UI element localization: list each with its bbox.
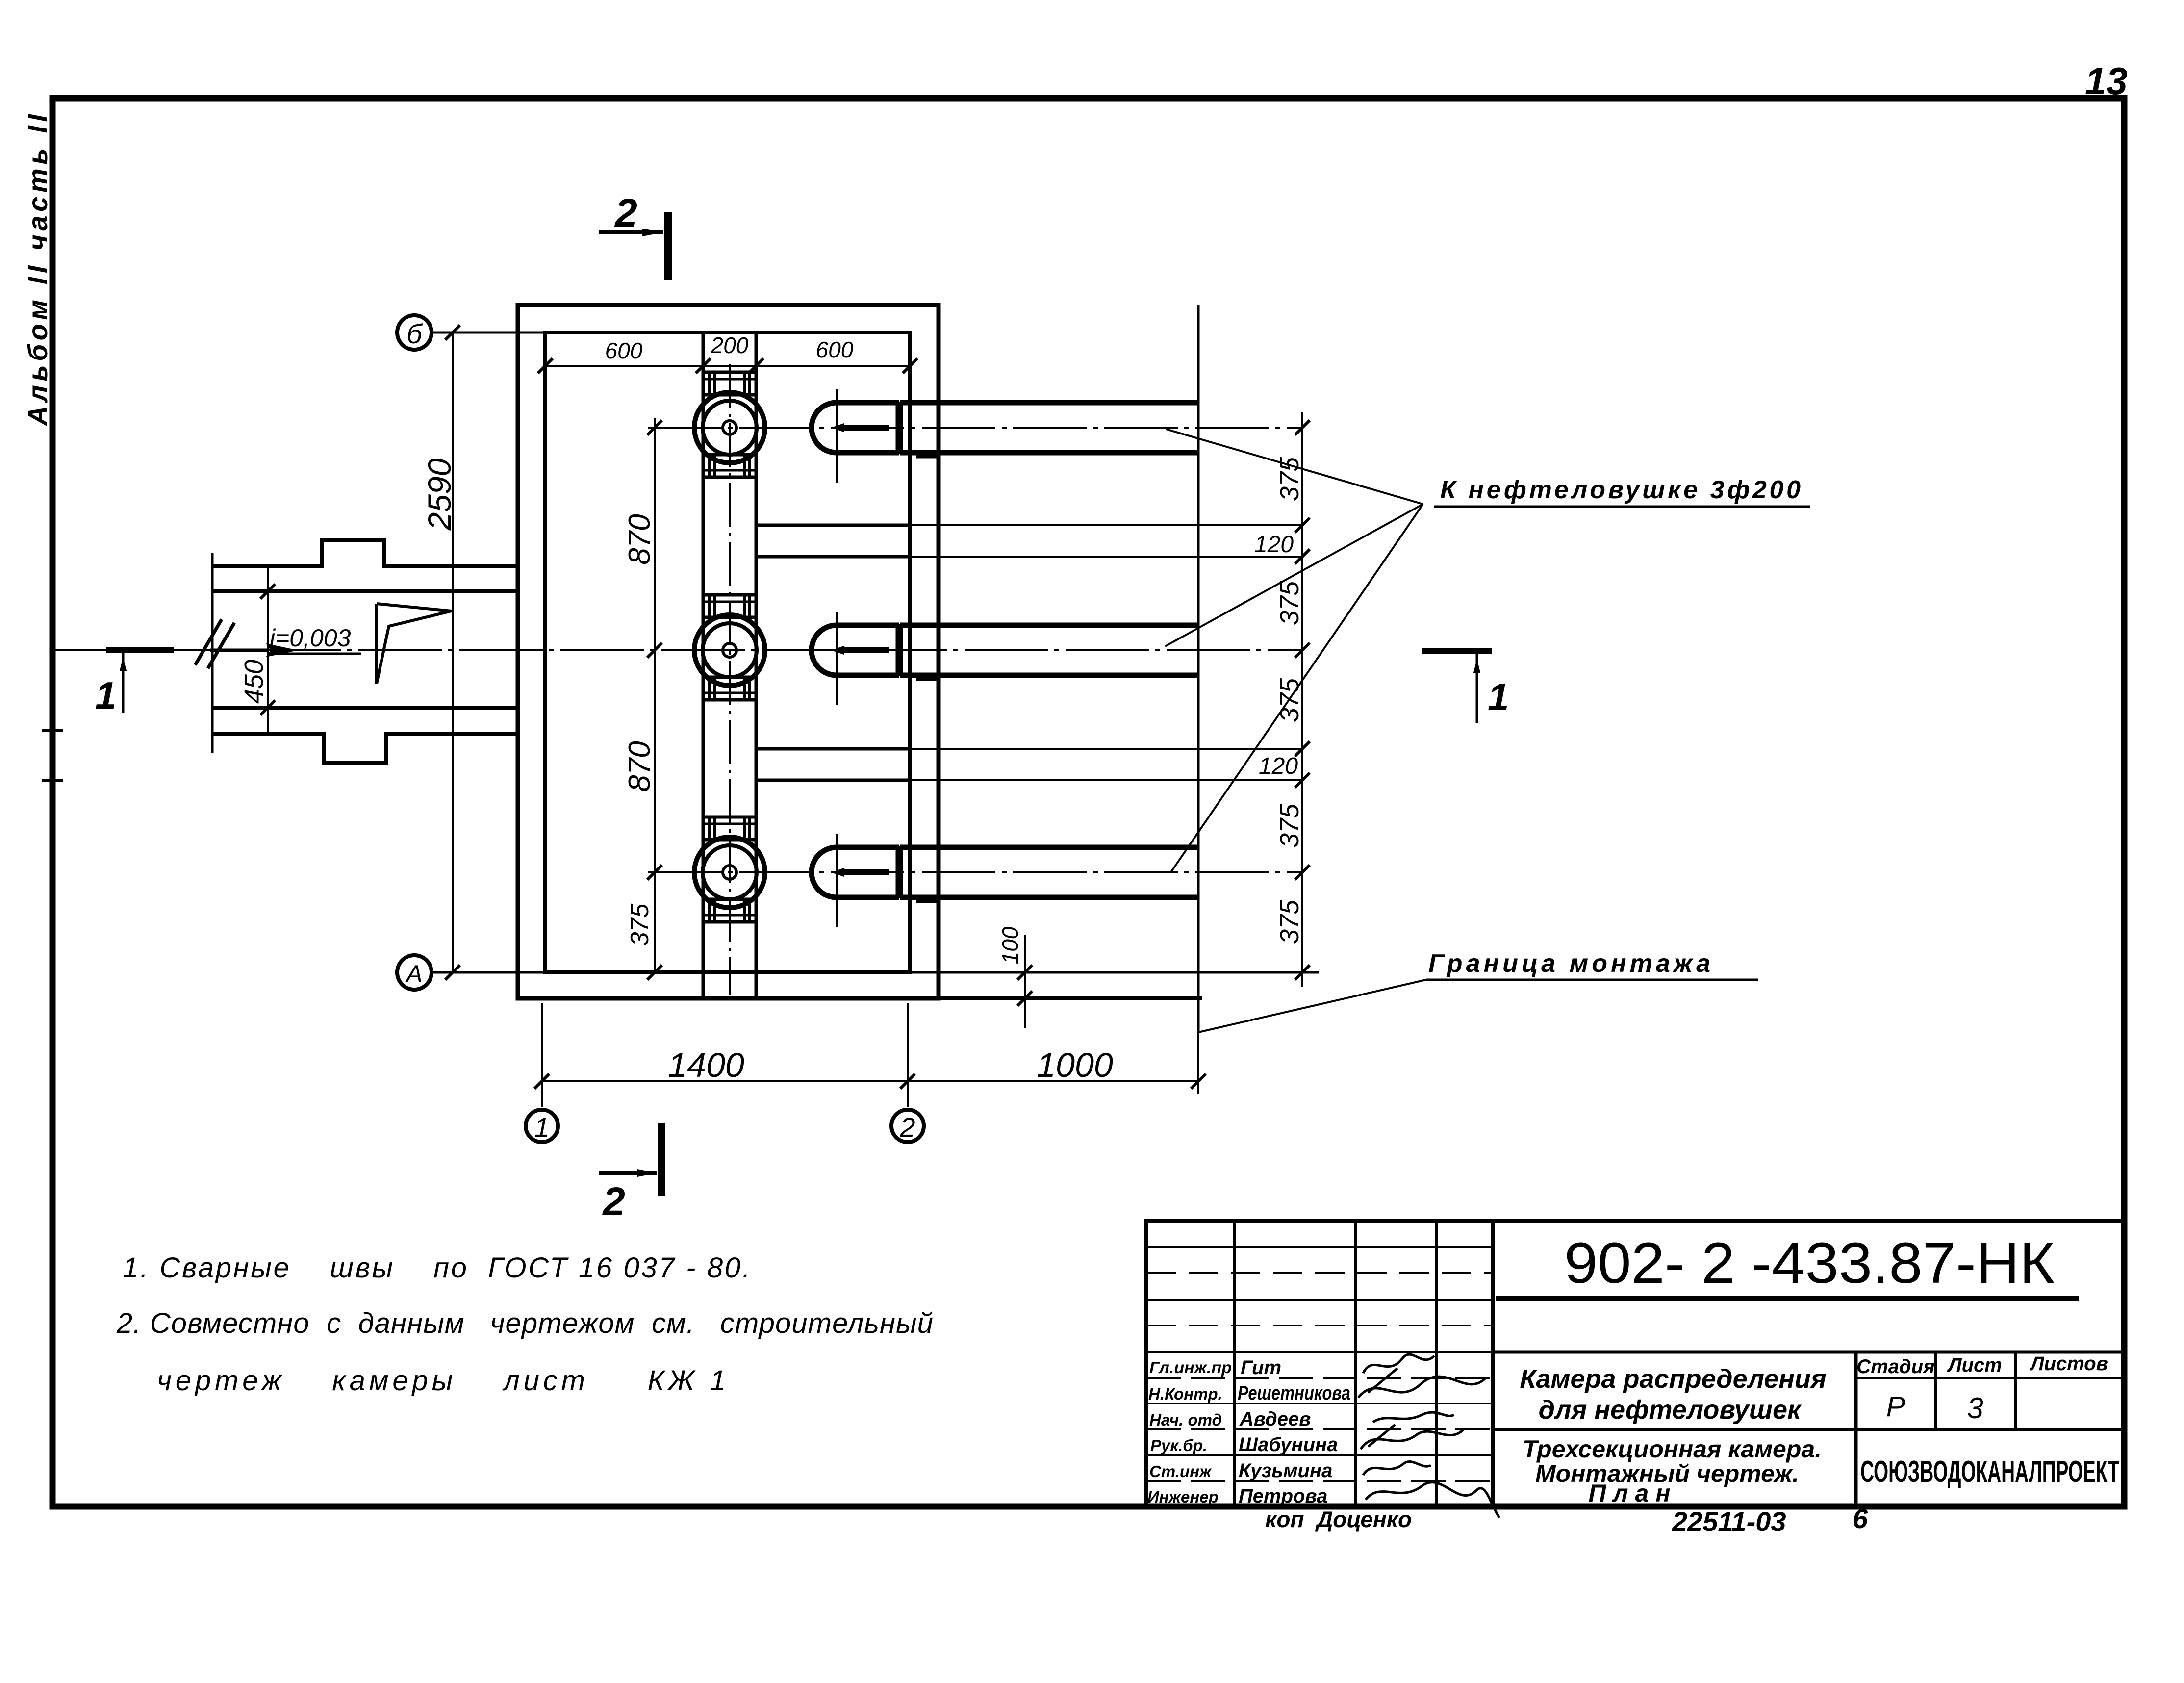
title block: staff table upper thin rows — [1146, 1246, 1493, 1248]
svg-text:2: 2 — [899, 1112, 915, 1143]
signatures — [1358, 1354, 1499, 1518]
svg-text:1400: 1400 — [668, 1046, 744, 1084]
svg-text:13: 13 — [2085, 59, 2128, 102]
leader to boundary line — [1198, 980, 1426, 1032]
svg-text:Гл.инж.пр: Гл.инж.пр — [1149, 1358, 1232, 1377]
title block: stage/sheet columns — [1854, 1352, 1858, 1506]
staff role labels — [1147, 1358, 1232, 1506]
pipe break mark — [195, 619, 234, 668]
svg-text:1: 1 — [1488, 675, 1509, 718]
partition wall 1 top face — [756, 524, 912, 527]
axis bubble Б — [397, 315, 432, 350]
pipe socket and pipe, section 1 — [812, 389, 1198, 483]
svg-text:450: 450 — [239, 660, 269, 704]
svg-text:2590: 2590 — [421, 458, 457, 531]
svg-text:Листов: Листов — [2029, 1353, 2108, 1375]
leader to pipe 1 — [1166, 429, 1423, 504]
svg-text:375: 375 — [1275, 457, 1304, 501]
section mark 2 top — [599, 191, 668, 280]
bottom dimension line 1400/1000 — [534, 1003, 1206, 1107]
valve channel right wall — [755, 332, 758, 998]
svg-text:чертеж камеры лист К: чертеж камеры лист КЖ 1 — [157, 1365, 726, 1397]
svg-text:600: 600 — [816, 337, 854, 362]
title block: document number cell underline — [1496, 1296, 2079, 1301]
svg-text:1. Сварные швы по ГОСТ: 1. Сварные швы по ГОСТ 16 037 - 80. — [123, 1252, 750, 1284]
chamber inner wall — [545, 332, 910, 972]
axis bubble А — [397, 955, 432, 990]
svg-text:1000: 1000 — [1037, 1046, 1113, 1084]
dimension 450 — [239, 565, 275, 736]
partition wall 2 top face — [756, 747, 912, 751]
inlet channel outer top wall — [212, 540, 518, 566]
svg-text:Ст.инж: Ст.инж — [1149, 1462, 1212, 1480]
svg-text:Лист: Лист — [1947, 1354, 2002, 1376]
leader to pipe 3 — [1171, 504, 1423, 871]
section mark 2 bottom — [599, 1123, 661, 1224]
title block: staff name row lines — [1146, 1377, 1493, 1379]
svg-text:К нефтеловушке 3ф200: К нефтеловушке 3ф200 — [1440, 476, 1801, 504]
svg-text:Альбом II часть II: Альбом II часть II — [22, 114, 53, 427]
partition wall 2 bottom face — [756, 779, 912, 782]
dimension 2590 vertical — [421, 325, 460, 980]
svg-text:870: 870 — [623, 514, 657, 564]
dimension chain 870/870/375 — [623, 418, 662, 980]
label: Граница монтажа — [1426, 949, 1758, 980]
label: К нефтеловушке 3ф200 — [1434, 476, 1810, 507]
inlet channel inner bottom wall — [212, 706, 518, 710]
svg-text:Граница монтажа: Граница монтажа — [1428, 949, 1710, 978]
svg-text:Р: Р — [1886, 1391, 1905, 1423]
svg-text:Рук.бр.: Рук.бр. — [1150, 1436, 1207, 1454]
title block: staff table verticals — [1233, 1221, 1236, 1506]
svg-text:Решетникова: Решетникова — [1238, 1382, 1350, 1404]
valve channel left wall — [702, 332, 705, 998]
partition 2 extension lines to dim chain — [912, 748, 1302, 750]
section mark 1 right — [1422, 651, 1509, 723]
svg-text:3: 3 — [1967, 1392, 1983, 1425]
axis line А — [431, 971, 1319, 974]
inlet channel left end line — [211, 553, 214, 753]
axis line section 3 — [648, 871, 1302, 873]
svg-text:А: А — [405, 960, 422, 988]
column bubble 1 — [526, 1110, 558, 1143]
svg-text:375: 375 — [1275, 899, 1304, 944]
project title: Камера распределения для нефтеловушек — [1520, 1364, 1826, 1425]
valve channel centerline — [729, 364, 731, 995]
svg-text:Трехсекционная камера.: Трехсекционная камера. — [1523, 1435, 1822, 1463]
svg-text:Авдеев: Авдеев — [1239, 1408, 1311, 1430]
leader to pipe 2 — [1165, 504, 1423, 646]
svg-text:1: 1 — [95, 674, 116, 717]
svg-text:Стадия: Стадия — [1856, 1356, 1934, 1377]
chamber outer wall — [518, 305, 939, 998]
slope direction flag — [377, 604, 452, 684]
svg-text:для нефтеловушек: для нефтеловушек — [1539, 1395, 1802, 1425]
pipe socket and pipe, section 3 — [812, 834, 1198, 927]
svg-text:Кузьмина: Кузьмина — [1239, 1460, 1332, 1481]
svg-text:План: План — [1588, 1479, 1677, 1507]
svg-text:Гит: Гит — [1241, 1357, 1281, 1378]
svg-text:120: 120 — [1254, 532, 1294, 558]
top dimension line 600/200/600 — [538, 332, 917, 373]
svg-text:375: 375 — [626, 903, 654, 946]
chamber bottom slab edge extension to boundary — [939, 996, 1202, 1000]
gate valve 3 — [694, 817, 765, 922]
svg-text:22511-03: 22511-03 — [1672, 1506, 1786, 1537]
svg-text:375: 375 — [1275, 803, 1304, 848]
inlet channel outer bottom wall — [212, 734, 518, 763]
svg-text:Инженер: Инженер — [1147, 1488, 1219, 1506]
title block outline — [1146, 1221, 2124, 1506]
svg-text:СОЮЗВОДОКАНАЛПРОЕКТ: СОЮЗВОДОКАНАЛПРОЕКТ — [1860, 1455, 2119, 1489]
gate valve 2 — [694, 595, 765, 700]
svg-text:6: 6 — [1853, 1503, 1868, 1534]
svg-text:i=0,003: i=0,003 — [270, 624, 351, 652]
svg-text:2: 2 — [602, 1179, 625, 1224]
svg-text:коп Доценко: коп Доценко — [1265, 1506, 1412, 1532]
sheet title: Трехсекционная камера. Монтажный чертеж. План — [1523, 1435, 1822, 1507]
svg-text:б: б — [406, 318, 423, 349]
svg-text:Шабунина: Шабунина — [1239, 1434, 1338, 1455]
section mark 1 left — [95, 650, 174, 717]
svg-text:120: 120 — [1259, 753, 1298, 779]
notes text — [116, 1252, 933, 1397]
column bubble 2 — [891, 1110, 924, 1143]
gate valve 1 — [694, 372, 765, 477]
partition wall 1 bottom face — [756, 555, 912, 559]
svg-text:Нач. отд: Нач. отд — [1149, 1411, 1222, 1429]
svg-text:1: 1 — [534, 1112, 549, 1143]
axis line section 1 — [648, 427, 1302, 429]
svg-text:Петрова: Петрова — [1239, 1485, 1327, 1507]
svg-text:2. Совместно с данным черт: 2. Совместно с данным чертежом см. строи… — [116, 1307, 933, 1339]
svg-text:Н.Контр.: Н.Контр. — [1148, 1385, 1222, 1403]
svg-text:100: 100 — [997, 926, 1023, 964]
svg-text:870: 870 — [623, 741, 657, 791]
pipe socket and pipe, section 2 — [812, 612, 1198, 705]
flow arrow on inlet axis — [210, 643, 298, 657]
axis line section 2 / inlet centerline — [55, 649, 1302, 651]
svg-text:902- 2 -433.87-НК: 902- 2 -433.87-НК — [1564, 1231, 2055, 1296]
staff names — [1238, 1357, 1350, 1507]
stage/sheet headers — [1856, 1353, 2108, 1377]
svg-text:375: 375 — [1275, 581, 1304, 625]
inlet channel inner top wall — [212, 589, 518, 593]
svg-text:Камера распределения: Камера распределения — [1520, 1364, 1826, 1394]
svg-text:2: 2 — [614, 191, 637, 235]
axis line Б — [431, 331, 549, 334]
svg-text:200: 200 — [711, 332, 749, 358]
installation boundary line — [1197, 305, 1200, 1032]
partition 1 extension lines to dim chain — [912, 524, 1302, 526]
fold tick marks on left border — [42, 729, 63, 732]
right dimension chain 375/120/375/375/120/375/375 — [1254, 412, 1310, 987]
slope label i=0,003 — [270, 624, 361, 654]
dimension 100 wall — [997, 926, 1032, 1028]
svg-text:600: 600 — [605, 338, 643, 363]
sheet frame border — [52, 98, 2124, 1506]
